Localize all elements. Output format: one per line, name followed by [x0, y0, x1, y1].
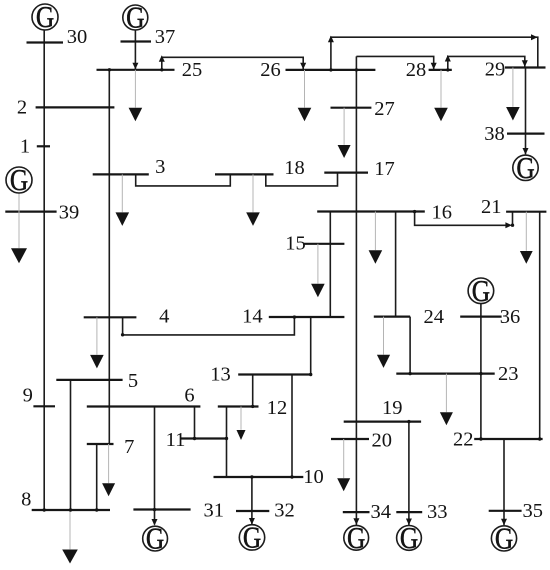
flow arrow up at top-line left corner: [328, 36, 334, 43]
svg-text:G: G: [243, 521, 261, 555]
wire 26-29 top line: [331, 37, 538, 70]
load line 23: [445, 374, 447, 413]
bus 4: [84, 316, 137, 318]
flow arrow down G37 into bus 25: [132, 63, 138, 70]
bus 18: [215, 173, 274, 175]
wire 7-8: [96, 444, 98, 510]
wire 6-11: [194, 407, 196, 439]
svg-text:5: 5: [128, 370, 138, 392]
load line 29: [512, 68, 514, 107]
flow arrow down into bus 28: [431, 63, 437, 70]
svg-text:12: 12: [267, 397, 288, 419]
load arrow 20: [337, 478, 350, 491]
bus 25: [97, 69, 175, 71]
svg-text:17: 17: [374, 158, 395, 180]
flow arrow right at 16-21 end: [505, 222, 512, 228]
svg-text:10: 10: [303, 466, 324, 488]
svg-text:G: G: [126, 1, 144, 35]
bus 3: [93, 173, 149, 175]
load arrow 29: [506, 107, 520, 121]
svg-text:1: 1: [20, 136, 30, 158]
bus 12: [218, 405, 259, 407]
generator G37 circle: [123, 5, 148, 30]
load arrow 28: [434, 108, 448, 122]
flow arrow down into bus 26: [300, 63, 306, 70]
load line 7: [108, 444, 110, 483]
flow arrow down into bus 29: [522, 60, 528, 67]
svg-text:39: 39: [59, 202, 80, 224]
generator G31 circle: [143, 526, 168, 551]
flow arrow up at 25-26 jumper: [159, 55, 165, 62]
load arrow 27: [338, 145, 351, 158]
svg-text:6: 6: [184, 385, 194, 407]
bus 21: [506, 211, 546, 213]
bus 5: [56, 379, 122, 381]
flow arrow up at bus 28 right stub: [445, 55, 451, 62]
load line 20: [343, 439, 345, 478]
svg-text:16: 16: [431, 202, 452, 224]
generator G34 circle: [344, 525, 369, 550]
load line G39-39-load: [18, 193, 20, 248]
bus 6: [87, 405, 201, 407]
svg-text:26: 26: [260, 59, 281, 81]
svg-text:G: G: [146, 522, 164, 556]
svg-text:9: 9: [23, 385, 33, 407]
flow arrow into G31: [152, 519, 158, 526]
bus 37: [121, 40, 152, 42]
load arrow 4: [90, 355, 104, 369]
wire 25-2-3-4-5-6-7 vertical: [108, 70, 110, 444]
wire 29-38-G: [525, 68, 527, 155]
svg-text:15: 15: [285, 233, 306, 255]
load line 18: [252, 174, 254, 212]
load line 28: [440, 70, 442, 108]
wire 19-33-G: [408, 422, 410, 525]
svg-text:24: 24: [424, 306, 445, 328]
flow arrow into G32: [249, 518, 255, 525]
svg-text:20: 20: [372, 429, 393, 451]
load arrow 12: [237, 430, 246, 440]
wire 25-26 jumper: [162, 57, 303, 70]
bus 11: [180, 437, 227, 439]
bus 36: [460, 316, 501, 318]
svg-text:38: 38: [484, 123, 505, 145]
svg-text:8: 8: [21, 489, 31, 511]
junction dots: [108, 68, 111, 71]
generator G39 circle: [6, 167, 32, 193]
flow arrow into G35: [501, 519, 507, 526]
load arrow 39: [11, 248, 27, 263]
flow arrow into G34: [353, 518, 359, 525]
wire 24-23: [409, 317, 411, 374]
svg-text:23: 23: [498, 363, 519, 385]
generator G36 circle: [468, 278, 494, 304]
generator G30 circle: [32, 4, 58, 30]
svg-text:37: 37: [155, 26, 176, 48]
flow arrow into G38: [523, 148, 529, 155]
flow arrow right at top-line right corner: [531, 34, 538, 40]
bus 31: [133, 508, 190, 510]
svg-text:G: G: [495, 522, 513, 556]
bus 23: [396, 373, 494, 375]
load line 21: [525, 212, 527, 251]
svg-text:19: 19: [382, 397, 403, 419]
load line 24: [383, 317, 385, 355]
svg-text:4: 4: [159, 306, 169, 328]
load arrow 7: [102, 483, 115, 496]
bus 1: [37, 145, 50, 147]
svg-text:3: 3: [155, 156, 165, 178]
wire 22-35-G: [503, 439, 505, 525]
load arrow 8: [62, 550, 78, 564]
bus 38: [507, 133, 545, 135]
svg-text:22: 22: [453, 429, 474, 451]
load line 4: [96, 317, 98, 354]
load line 16: [374, 212, 376, 251]
bus 20: [331, 438, 369, 440]
wire 13-12: [252, 375, 254, 407]
bus 7: [87, 443, 114, 445]
load arrow 26: [298, 108, 312, 122]
wire 26-27-17-16-19-20-34-G long vertical: [355, 56, 357, 525]
svg-text:35: 35: [523, 500, 544, 522]
load arrow 3: [116, 212, 130, 226]
wire 16-24: [395, 212, 397, 317]
svg-text:14: 14: [242, 306, 263, 328]
svg-text:27: 27: [374, 98, 395, 120]
load line 8: [69, 510, 71, 549]
bus 27: [331, 107, 372, 109]
svg-text:13: 13: [210, 364, 231, 386]
svg-text:2: 2: [17, 97, 27, 119]
generator G38 circle: [513, 155, 538, 180]
generator G32 circle: [239, 525, 264, 550]
svg-text:G: G: [36, 1, 54, 35]
bus 15: [303, 243, 344, 245]
bus 9: [33, 405, 55, 407]
load line 27: [343, 108, 345, 145]
load arrow 21: [520, 251, 533, 264]
load arrow 18: [246, 212, 260, 226]
wire G37 to bus 25: [134, 30, 136, 70]
wire 21 stub down: [512, 212, 514, 226]
wire G36-36-23-22: [480, 304, 482, 439]
svg-text:29: 29: [485, 59, 506, 81]
bus 30: [27, 41, 64, 43]
wire 18-17 connector: [266, 173, 338, 186]
wire 10-32-G: [251, 477, 253, 524]
svg-text:G: G: [516, 152, 534, 186]
svg-text:G: G: [472, 275, 490, 309]
load arrow 16: [369, 250, 383, 263]
bus 13: [238, 373, 311, 375]
svg-text:30: 30: [67, 26, 88, 48]
load line 15: [317, 244, 319, 284]
bus 32: [236, 510, 269, 512]
svg-text:G: G: [400, 522, 418, 556]
wire 26 to bus 28 branch: [356, 56, 433, 69]
svg-text:33: 33: [427, 501, 448, 523]
load arrow 23: [440, 412, 453, 425]
svg-text:31: 31: [204, 500, 225, 522]
wire 4-14 connector: [123, 317, 295, 335]
wire 30-2-1-39-9-8 left vertical: [43, 31, 45, 511]
load arrow 24: [377, 355, 390, 368]
load line 25: [134, 70, 136, 108]
wire 21-22: [539, 212, 541, 439]
bus 33: [396, 511, 422, 513]
wire 3-18 connector: [136, 174, 231, 186]
wire 16-21 connector: [415, 212, 509, 226]
bus 14: [269, 316, 345, 318]
bus 10: [214, 476, 304, 478]
wire 14-13: [310, 317, 312, 375]
bus 8: [32, 509, 110, 511]
wire 12-11-10: [226, 407, 228, 478]
generator G35 circle: [491, 526, 516, 551]
bus 35: [489, 510, 522, 512]
bus 28: [429, 69, 452, 71]
svg-text:25: 25: [182, 59, 203, 81]
bus 16: [317, 210, 425, 212]
svg-text:7: 7: [124, 436, 134, 458]
svg-text:28: 28: [406, 59, 427, 81]
svg-text:21: 21: [481, 196, 502, 218]
svg-text:G: G: [347, 522, 365, 556]
wire 6-31-G: [154, 407, 156, 525]
svg-text:34: 34: [371, 501, 392, 523]
load arrow 15: [311, 284, 325, 298]
svg-text:11: 11: [166, 429, 186, 451]
bus 22: [474, 438, 542, 440]
bus 17: [324, 172, 368, 174]
wire 13-10: [291, 375, 293, 478]
bus 29: [505, 66, 546, 68]
generator G33 circle: [397, 526, 422, 551]
wire bus 28 to 29 branch: [448, 56, 525, 70]
load line 12: [240, 407, 242, 430]
svg-text:32: 32: [274, 500, 295, 522]
bus 24: [374, 316, 410, 318]
load line 26: [304, 70, 306, 108]
load line 3: [121, 174, 123, 212]
svg-text:G: G: [10, 164, 28, 198]
wire 16-15-14: [329, 212, 331, 318]
flow arrow into G33: [406, 519, 412, 526]
svg-text:18: 18: [284, 157, 305, 179]
wire 5-8: [70, 380, 72, 510]
bus 19: [344, 421, 421, 423]
svg-text:36: 36: [500, 306, 521, 328]
bus 26: [286, 69, 376, 71]
load arrow 25: [129, 108, 143, 122]
bus 2: [36, 106, 115, 108]
bus 34: [343, 511, 370, 513]
bus 39: [5, 211, 56, 213]
